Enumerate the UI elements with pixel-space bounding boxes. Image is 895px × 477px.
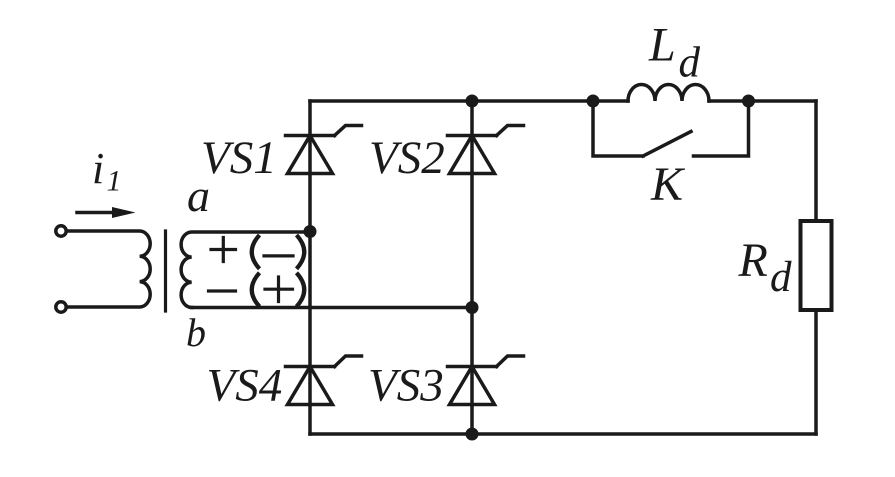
transformer core bbox=[164, 231, 167, 311]
polarity minus in parentheses (upper row) bbox=[264, 254, 293, 257]
polarity plus (upper row) bbox=[211, 238, 236, 262]
transformer secondary winding bbox=[181, 232, 310, 308]
junction node b on right leg bbox=[466, 301, 479, 314]
transformer primary winding bbox=[67, 231, 151, 307]
junction bottom of right leg bbox=[466, 428, 479, 441]
wire: bottom rail bbox=[310, 432, 816, 436]
svg-text:VS1: VS1 bbox=[201, 132, 277, 184]
wire: right bridge leg bbox=[470, 101, 474, 434]
svg-text:VS3: VS3 bbox=[368, 360, 444, 412]
svg-text:d: d bbox=[770, 254, 792, 301]
label VS1 bbox=[201, 132, 277, 184]
wire: right branch to load bbox=[814, 101, 818, 434]
junction left of inductor bbox=[587, 95, 600, 108]
transformer terminal top bbox=[56, 226, 66, 236]
wire: left bridge leg bbox=[308, 101, 312, 434]
label Ld bbox=[648, 19, 701, 87]
switch K bbox=[593, 101, 749, 156]
thyristor VS1 bbox=[286, 126, 362, 174]
resistor Rd bbox=[801, 221, 832, 310]
label VS4 bbox=[207, 360, 283, 412]
transformer terminal bottom bbox=[56, 302, 66, 312]
label VS2 bbox=[369, 132, 445, 184]
wire: top rail bbox=[310, 99, 816, 103]
polarity plus in parentheses (lower row) bbox=[265, 277, 293, 302]
label node a bbox=[187, 170, 210, 221]
svg-text:R: R bbox=[738, 234, 768, 287]
label Rd bbox=[738, 234, 793, 301]
wire: node b to right leg bbox=[192, 306, 472, 310]
svg-text:1: 1 bbox=[107, 165, 122, 198]
label K bbox=[650, 158, 686, 211]
thyristor VS4 bbox=[286, 356, 362, 405]
label node b bbox=[186, 310, 206, 355]
parentheses upper row bbox=[252, 235, 305, 269]
thyristor VS3 bbox=[448, 356, 524, 405]
svg-text:b: b bbox=[186, 310, 206, 355]
svg-text:L: L bbox=[648, 19, 676, 72]
label VS3 bbox=[368, 360, 444, 412]
svg-text:VS4: VS4 bbox=[207, 360, 283, 412]
svg-text:VS2: VS2 bbox=[369, 132, 445, 184]
arrow for current i1 bbox=[77, 207, 136, 218]
junction top of right leg bbox=[466, 95, 479, 108]
thyristor VS2 bbox=[448, 126, 524, 174]
svg-text:i: i bbox=[92, 144, 104, 193]
polarity minus (lower row) bbox=[209, 289, 236, 292]
parentheses lower row bbox=[252, 273, 305, 307]
junction right of inductor bbox=[742, 95, 755, 108]
label i1 bbox=[92, 144, 122, 198]
svg-text:K: K bbox=[650, 158, 686, 211]
inductor Ld bbox=[628, 85, 709, 101]
svg-text:d: d bbox=[679, 40, 701, 87]
junction node a bbox=[304, 225, 317, 238]
